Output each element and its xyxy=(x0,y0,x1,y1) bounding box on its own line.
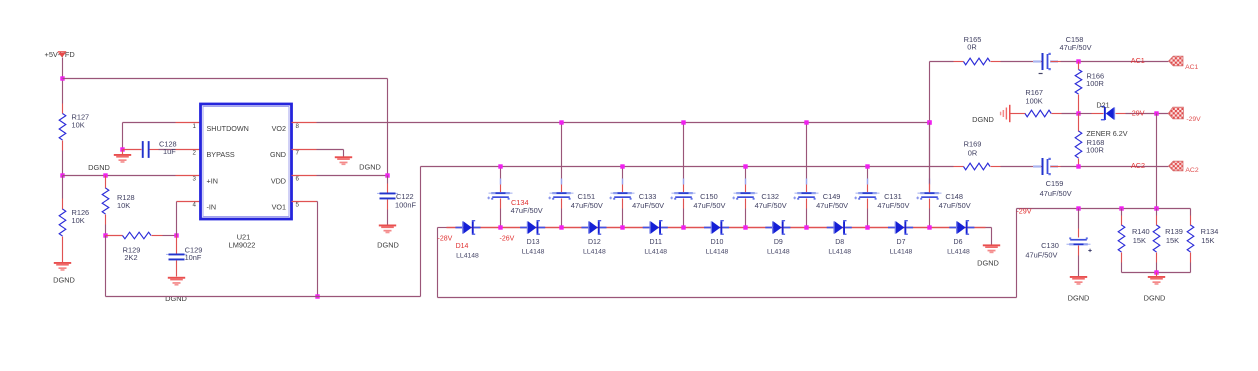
node C130 junction xyxy=(1076,206,1080,210)
port -29V xyxy=(1168,107,1183,119)
svg-text:C159: C159 xyxy=(1046,179,1064,188)
wire -29V drop xyxy=(1156,114,1158,209)
node C150 top junction xyxy=(681,120,685,124)
wire -IN drop xyxy=(176,202,178,236)
wire -29V bus xyxy=(1017,208,1191,210)
svg-text:47uF/50V: 47uF/50V xyxy=(632,201,664,210)
ground DGND diode chain xyxy=(983,244,1000,246)
svg-text:LL4148: LL4148 xyxy=(947,249,970,256)
svg-text:DGND: DGND xyxy=(53,276,75,285)
svg-text:DGND: DGND xyxy=(377,241,399,250)
svg-text:-29V: -29V xyxy=(1016,207,1031,216)
diode D13 xyxy=(520,227,527,229)
resistor R127 xyxy=(62,104,64,114)
wire C148 drop xyxy=(929,123,931,184)
wire AC1 riser xyxy=(929,62,931,123)
svg-text:47uF/50V: 47uF/50V xyxy=(1040,189,1072,198)
resistor R167 xyxy=(1011,113,1026,115)
node C132 top junction xyxy=(743,164,747,168)
svg-text:DGND: DGND xyxy=(88,163,110,172)
svg-text:VDD: VDD xyxy=(271,176,286,185)
wire +IN bus xyxy=(63,175,176,177)
svg-text:-26V: -26V xyxy=(500,236,515,243)
svg-text:DGND: DGND xyxy=(1144,294,1166,303)
node R166 top junction xyxy=(1076,59,1080,63)
svg-text:100K: 100K xyxy=(1025,96,1042,105)
wire ladder AC2 bus xyxy=(421,166,954,168)
svg-text:LM9022: LM9022 xyxy=(229,241,256,250)
resistor R168 xyxy=(1078,114,1080,132)
wire R126 top xyxy=(62,176,64,199)
svg-text:2: 2 xyxy=(193,150,197,157)
wire zener to -29V port xyxy=(1116,113,1126,115)
ground DGND resistors xyxy=(1156,273,1158,277)
wire pin1 SHUTDOWN xyxy=(123,122,176,124)
wire R129 node drop xyxy=(105,236,107,297)
capacitor C151 xyxy=(561,123,563,179)
ground DGND R126 xyxy=(54,262,71,264)
node VO1 bottom junction xyxy=(315,294,319,298)
svg-text:10K: 10K xyxy=(117,201,130,210)
node R129 C129 junction xyxy=(174,233,178,237)
svg-text:R140: R140 xyxy=(1132,227,1150,236)
node C131 top junction xyxy=(865,164,869,168)
svg-text:D8: D8 xyxy=(835,239,844,246)
svg-text:LL4148: LL4148 xyxy=(644,249,667,256)
node C128 junction xyxy=(120,147,124,151)
capacitor C133 xyxy=(622,167,624,179)
wire ladder left riser xyxy=(420,167,422,297)
wire R128 bottom xyxy=(105,225,107,236)
svg-text:DGND: DGND xyxy=(972,115,994,124)
wire pin7 GND xyxy=(292,149,317,151)
svg-text:SHUTDOWN: SHUTDOWN xyxy=(207,124,249,133)
wire pin6 VDD xyxy=(292,175,317,177)
svg-text:R169: R169 xyxy=(964,140,982,149)
diode D12 xyxy=(581,227,588,229)
svg-text:LL4148: LL4148 xyxy=(706,249,729,256)
svg-text:8: 8 xyxy=(296,123,300,130)
svg-text:DGND: DGND xyxy=(359,163,381,172)
svg-text:LL4148: LL4148 xyxy=(456,253,479,260)
node C148 top junction xyxy=(927,120,931,124)
svg-text:LL4148: LL4148 xyxy=(583,249,606,256)
svg-text:D14: D14 xyxy=(456,243,469,250)
svg-text:10K: 10K xyxy=(72,216,85,225)
resistor R166 xyxy=(1078,62,1080,70)
power DGND arrow xyxy=(1009,105,1011,122)
svg-text:1: 1 xyxy=(193,123,197,130)
wire R167 to node xyxy=(1062,113,1079,115)
svg-text:BYPASS: BYPASS xyxy=(207,150,235,159)
capacitor C158 xyxy=(1033,61,1042,63)
svg-text:6: 6 xyxy=(296,176,300,183)
capacitor C148 xyxy=(929,123,931,179)
wire -IN pin4 xyxy=(177,201,201,203)
svg-text:C131: C131 xyxy=(884,192,902,201)
node +5V junction xyxy=(60,76,64,80)
wire VO1 drop xyxy=(317,202,319,297)
node C133 top junction xyxy=(620,164,624,168)
svg-text:+IN: +IN xyxy=(207,176,218,185)
node R128 R129 junction xyxy=(103,233,107,237)
svg-text:C132: C132 xyxy=(761,192,779,201)
svg-text:7: 7 xyxy=(296,150,300,157)
svg-text:47uF/50V: 47uF/50V xyxy=(693,201,725,210)
port AC1 xyxy=(1169,56,1183,66)
ground DGND C129 xyxy=(168,277,185,279)
svg-text:-29V: -29V xyxy=(1186,116,1201,123)
svg-text:47uF/50V: 47uF/50V xyxy=(816,201,848,210)
svg-text:C130: C130 xyxy=(1041,241,1059,250)
svg-text:C151: C151 xyxy=(577,192,595,201)
op-amp U21 LM9022 body xyxy=(201,104,292,219)
svg-text:D6: D6 xyxy=(954,239,963,246)
node +IN R128 junction xyxy=(103,173,107,177)
svg-text:D9: D9 xyxy=(774,239,783,246)
svg-text:47uF/50V: 47uF/50V xyxy=(571,201,603,210)
svg-text:D13: D13 xyxy=(527,239,540,246)
node zener junction xyxy=(1076,111,1080,115)
capacitor C150 xyxy=(683,123,685,179)
svg-text:5: 5 xyxy=(296,202,300,209)
resistor R165 xyxy=(930,61,954,63)
node C134 bottom junction xyxy=(498,225,502,229)
svg-text:1uF: 1uF xyxy=(163,147,176,156)
svg-text:DGND: DGND xyxy=(977,259,999,268)
node C148 bottom junction xyxy=(927,225,931,229)
capacitor C122 xyxy=(387,176,389,184)
diode D8 xyxy=(827,227,834,229)
svg-text:C150: C150 xyxy=(700,192,718,201)
resistor R134 xyxy=(1190,209,1192,216)
resistor R126 xyxy=(62,199,64,210)
svg-text:100R: 100R xyxy=(1086,146,1104,155)
svg-text:100R: 100R xyxy=(1086,79,1104,88)
node VDD junction xyxy=(385,173,389,177)
svg-text:47uF/50V: 47uF/50V xyxy=(1059,43,1091,52)
resistor R139 xyxy=(1156,209,1158,216)
wire diode row xyxy=(438,227,447,229)
wire pin8 VO2 bus xyxy=(292,122,317,124)
wire R169 to C159 xyxy=(1001,166,1033,168)
capacitor C129 xyxy=(176,236,178,254)
capacitor C128 xyxy=(123,149,142,151)
wire C159 to AC2 port xyxy=(1061,166,1169,168)
svg-text:C149: C149 xyxy=(823,192,841,201)
svg-text:-IN: -IN xyxy=(207,202,217,211)
node C149 top junction xyxy=(804,120,808,124)
svg-text:47uF/50V: 47uF/50V xyxy=(939,201,971,210)
svg-text:D21: D21 xyxy=(1096,101,1109,110)
node C132 bottom junction xyxy=(743,225,747,229)
capacitor C134 xyxy=(500,167,502,179)
diode D10 xyxy=(704,227,711,229)
resistor R129 xyxy=(106,235,123,237)
node R139 junction xyxy=(1154,206,1158,210)
node +IN left junction xyxy=(60,173,64,177)
node R168 bottom junction xyxy=(1076,164,1080,168)
wire resistor bottom bus xyxy=(1122,272,1191,274)
wire bottom bus VO1 xyxy=(106,296,421,298)
svg-text:AC2: AC2 xyxy=(1185,167,1198,174)
wire R127 to +IN bus xyxy=(62,151,64,176)
wire pin1 drop xyxy=(122,123,124,150)
capacitor C149 xyxy=(806,123,808,179)
resistor R140 xyxy=(1121,209,1123,216)
resistor R128 xyxy=(105,176,107,189)
svg-text:47uF/50V: 47uF/50V xyxy=(877,201,909,210)
capacitor C159 xyxy=(1033,166,1042,168)
diode D11 xyxy=(643,227,650,229)
diode D6 xyxy=(949,227,956,229)
node C151 top junction xyxy=(559,120,563,124)
node ground junction xyxy=(1154,270,1158,274)
svg-text:15K: 15K xyxy=(1166,236,1179,245)
svg-text:DGND: DGND xyxy=(1068,294,1090,303)
svg-text:-29V: -29V xyxy=(1129,109,1144,118)
wire top bus +5V xyxy=(63,78,388,80)
ground DGND C122 xyxy=(379,225,396,227)
svg-text:ZENER 6.2V: ZENER 6.2V xyxy=(1086,129,1127,138)
svg-text:GND: GND xyxy=(270,150,286,159)
svg-text:47uF/50V: 47uF/50V xyxy=(1025,250,1057,259)
node C151 bottom junction xyxy=(559,225,563,229)
svg-text:LL4148: LL4148 xyxy=(828,249,851,256)
wire -29V riser xyxy=(1016,209,1018,298)
wire node to zener xyxy=(1079,113,1092,115)
svg-text:47uF/50V: 47uF/50V xyxy=(511,206,543,215)
node C149 bottom junction xyxy=(804,225,808,229)
wire ladder row left drop xyxy=(437,228,439,298)
svg-text:3: 3 xyxy=(193,176,197,183)
svg-text:C148: C148 xyxy=(945,192,963,201)
svg-text:LL4148: LL4148 xyxy=(767,249,790,256)
node C133 bottom junction xyxy=(620,225,624,229)
svg-text:R134: R134 xyxy=(1201,227,1219,236)
svg-text:10K: 10K xyxy=(72,121,85,130)
node R140 junction xyxy=(1119,206,1123,210)
capacitor C131 xyxy=(867,167,869,179)
svg-text:VO2: VO2 xyxy=(272,124,286,133)
wire +5V vertical xyxy=(62,58,64,104)
node C131 bottom junction xyxy=(865,225,869,229)
port AC2 xyxy=(1169,161,1183,171)
node C134 top junction xyxy=(498,164,502,168)
resistor R169 xyxy=(964,163,991,170)
svg-text:100nF: 100nF xyxy=(395,201,416,210)
diode D14 xyxy=(455,227,462,229)
svg-text:15K: 15K xyxy=(1201,236,1214,245)
wire R165 to C158 xyxy=(1001,61,1033,63)
capacitor C130 xyxy=(1078,209,1080,229)
svg-text:AC1: AC1 xyxy=(1131,56,1145,65)
svg-text:LL4148: LL4148 xyxy=(522,249,545,256)
svg-text:15K: 15K xyxy=(1133,236,1146,245)
svg-text:DGND: DGND xyxy=(165,294,187,303)
diode D9 xyxy=(765,227,772,229)
wire VDD drop xyxy=(387,79,389,176)
zener D21 xyxy=(1104,107,1106,120)
svg-text:10nF: 10nF xyxy=(185,253,202,262)
wire D6 to ground xyxy=(986,227,992,229)
ground DGND C128 xyxy=(122,150,124,155)
svg-text:D7: D7 xyxy=(897,239,906,246)
svg-text:AC1: AC1 xyxy=(1185,64,1198,71)
svg-text:2K2: 2K2 xyxy=(124,253,137,262)
svg-text:47uF/50V: 47uF/50V xyxy=(755,201,787,210)
svg-text:C133: C133 xyxy=(639,192,657,201)
svg-text:D12: D12 xyxy=(588,239,601,246)
svg-text:R139: R139 xyxy=(1165,227,1183,236)
capacitor C132 xyxy=(745,167,747,179)
ground DGND C130 xyxy=(1070,276,1087,278)
svg-text:-28V: -28V xyxy=(438,236,453,243)
svg-text:LL4148: LL4148 xyxy=(890,249,913,256)
svg-text:D11: D11 xyxy=(650,239,662,246)
diode D7 xyxy=(888,227,895,229)
svg-text:AC2: AC2 xyxy=(1131,161,1145,170)
svg-text:D10: D10 xyxy=(711,239,724,246)
svg-text:4: 4 xyxy=(193,202,197,209)
wire R126 to ground xyxy=(62,237,64,263)
node -29V drop junction xyxy=(1154,111,1158,115)
node C150 bottom junction xyxy=(681,225,685,229)
node VO2 riser junction xyxy=(927,120,931,124)
ground DGND pin7 xyxy=(335,156,352,158)
wire C158 to AC1 port xyxy=(1061,61,1169,63)
wire pin5 VO1 xyxy=(292,201,317,203)
svg-text:0R: 0R xyxy=(968,149,977,158)
svg-text:0R: 0R xyxy=(967,43,976,52)
svg-text:VO1: VO1 xyxy=(272,202,286,211)
wire bottom bus -29V xyxy=(438,297,1017,299)
